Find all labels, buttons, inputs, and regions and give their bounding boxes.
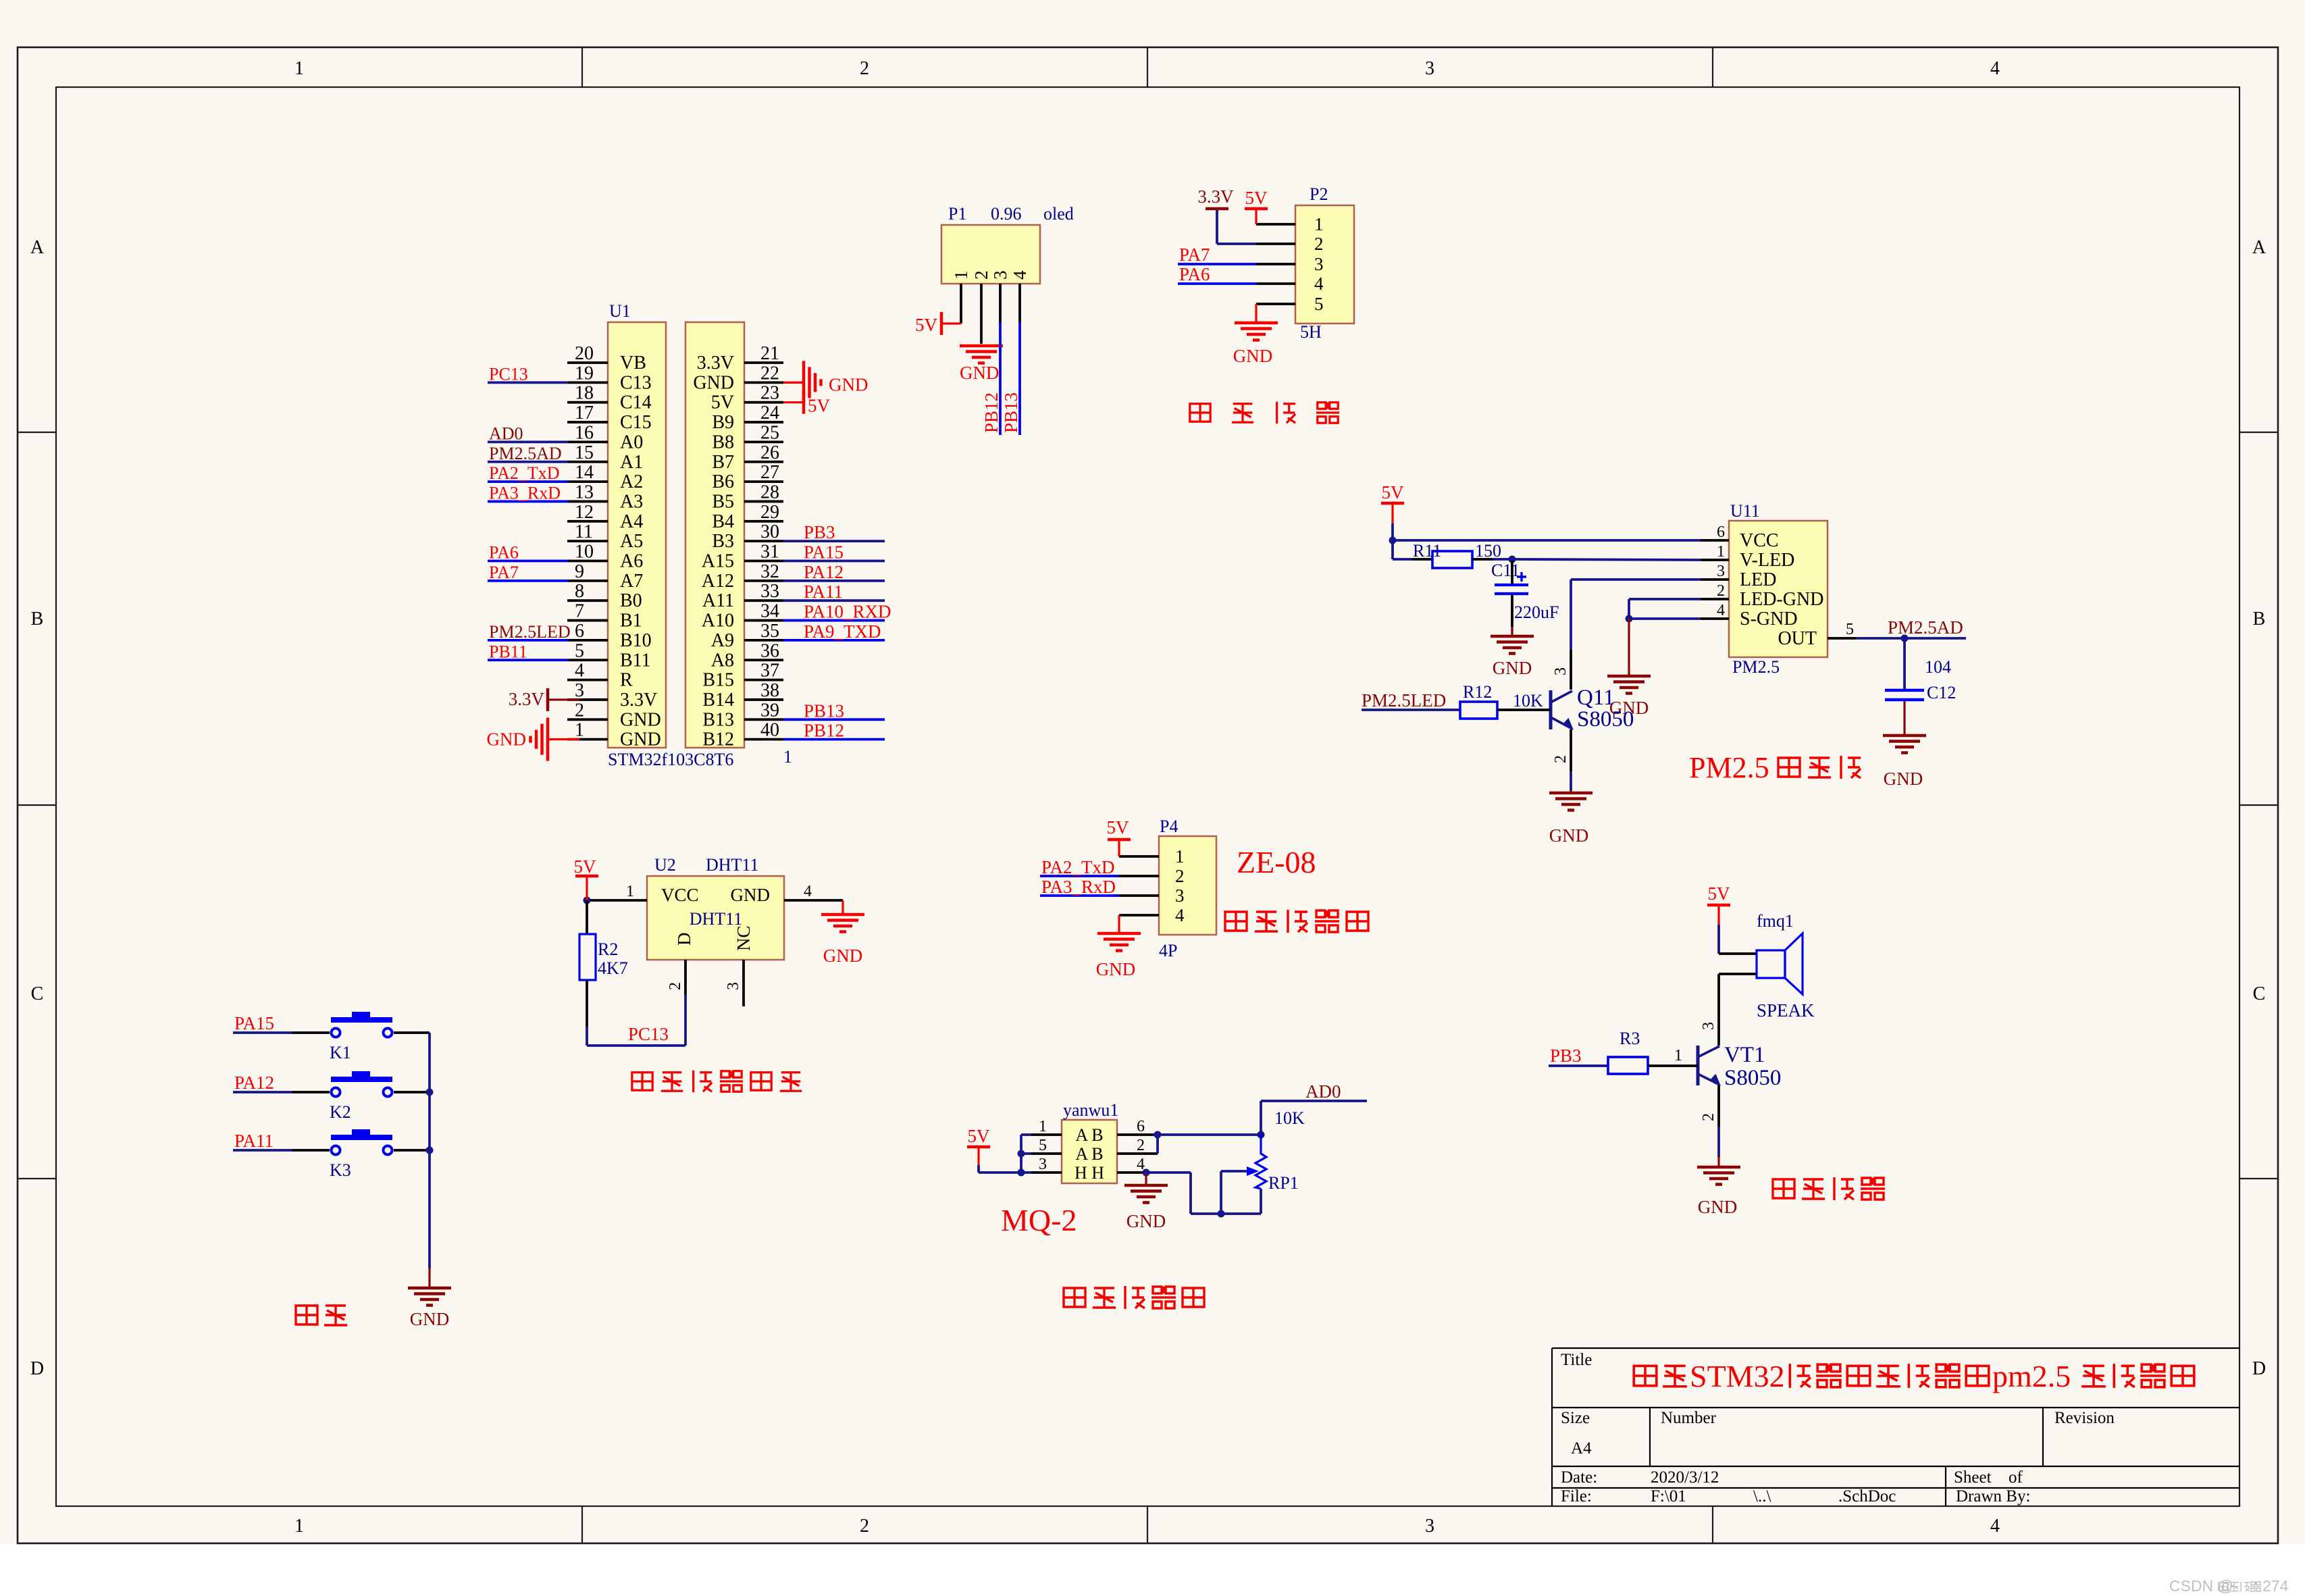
svg-text:5V: 5V [1107,817,1130,838]
svg-text:A B: A B [1075,1125,1103,1145]
svg-text:VCC: VCC [1740,530,1779,551]
svg-text:39: 39 [760,700,779,721]
svg-text:GND: GND [410,1309,450,1329]
svg-text:B0: B0 [620,590,642,611]
svg-text:B5: B5 [712,491,734,512]
svg-text:K1: K1 [330,1043,351,1062]
svg-text:2: 2 [667,982,684,990]
svg-text:PA9_TXD: PA9_TXD [804,621,881,642]
svg-text:3: 3 [1039,1156,1047,1173]
svg-text:A12: A12 [702,571,734,592]
svg-text:R11: R11 [1413,541,1441,561]
svg-text:PA3_RxD: PA3_RxD [489,483,561,503]
svg-text:1: 1 [1717,543,1725,561]
svg-text:Q11: Q11 [1577,686,1615,710]
svg-text:6: 6 [1137,1118,1145,1135]
svg-text:16: 16 [575,422,594,443]
svg-text:B4: B4 [712,511,734,532]
svg-text:34: 34 [760,601,779,622]
svg-text:8: 8 [575,581,584,602]
svg-text:7: 7 [575,601,584,622]
svg-text:\..\: \..\ [1753,1487,1771,1505]
svg-text:38: 38 [760,680,779,701]
svg-text:2: 2 [1137,1137,1145,1154]
svg-text:A2: A2 [620,471,643,492]
svg-text:3: 3 [990,271,1010,280]
svg-text:35: 35 [760,621,779,642]
svg-text:B10: B10 [620,630,652,651]
svg-text:GND: GND [823,946,863,966]
svg-text:yanwu1: yanwu1 [1063,1100,1118,1120]
svg-text:.SchDoc: .SchDoc [1838,1487,1896,1505]
svg-text:of: of [2009,1468,2023,1487]
svg-text:1: 1 [1175,846,1185,867]
svg-text:PA6: PA6 [489,543,519,563]
svg-text:PM2.5: PM2.5 [1732,657,1780,677]
svg-text:3: 3 [1700,1022,1717,1030]
svg-text:6: 6 [575,621,584,642]
svg-text:B15: B15 [702,670,734,691]
svg-text:PB12: PB12 [804,721,844,741]
svg-text:B7: B7 [712,452,734,473]
svg-text:4P: 4P [1159,941,1177,960]
svg-text:PB11: PB11 [489,642,527,661]
svg-text:B13: B13 [702,709,734,730]
svg-text:21: 21 [760,343,779,364]
svg-text:220uF: 220uF [1514,602,1559,622]
svg-text:4: 4 [1990,58,2000,79]
svg-text:22: 22 [760,363,779,384]
svg-text:4: 4 [1175,905,1185,925]
svg-text:F:\01: F:\01 [1651,1487,1686,1505]
svg-text:25: 25 [760,422,779,443]
svg-text:5V: 5V [574,856,597,877]
svg-text:K3: K3 [330,1160,351,1180]
svg-text:P4: P4 [1160,817,1178,836]
svg-text:2: 2 [860,1516,869,1537]
svg-text:5V: 5V [711,392,734,413]
svg-text:B14: B14 [702,690,734,711]
svg-text:GND: GND [620,729,661,750]
svg-text:1: 1 [1314,214,1324,234]
svg-text:D: D [2252,1358,2266,1379]
svg-text:274: 274 [2262,1577,2289,1595]
svg-text:A B: A B [1075,1144,1103,1164]
svg-text:PC13: PC13 [489,364,528,384]
svg-text:2: 2 [1175,866,1185,886]
svg-text:1: 1 [783,747,792,767]
svg-text:S8050: S8050 [1724,1066,1781,1090]
svg-text:PC13: PC13 [628,1024,669,1044]
svg-text:GND: GND [960,363,1000,383]
svg-text:B12: B12 [702,729,734,750]
svg-text:R3: R3 [1620,1029,1640,1048]
svg-text:PA7: PA7 [1179,244,1210,265]
svg-text:5: 5 [1039,1137,1047,1154]
svg-text:A4: A4 [1571,1439,1592,1458]
svg-text:2: 2 [1552,755,1570,763]
svg-text:NC: NC [733,925,754,951]
svg-text:3.3V: 3.3V [620,690,657,711]
svg-text:D: D [674,933,694,946]
svg-text:GND: GND [731,885,771,905]
svg-text:4: 4 [1990,1516,2000,1537]
svg-text:3: 3 [1552,667,1570,675]
svg-text:1: 1 [626,883,634,900]
svg-text:GND: GND [1549,825,1589,846]
svg-text:fmq1: fmq1 [1757,911,1794,931]
svg-text:3: 3 [575,680,584,701]
svg-text:R12: R12 [1463,682,1492,702]
svg-text:RP1: RP1 [1268,1173,1299,1193]
svg-text:R: R [620,670,633,691]
svg-text:PA11: PA11 [234,1131,274,1151]
svg-text:4K7: 4K7 [598,958,628,978]
svg-text:2: 2 [1717,582,1725,600]
svg-text:4: 4 [1314,274,1324,294]
svg-text:12: 12 [575,502,594,523]
svg-text:C11: C11 [1491,561,1520,580]
svg-text:OUT: OUT [1778,628,1817,649]
svg-text:15: 15 [575,442,594,463]
svg-text:5H: 5H [1300,322,1322,342]
svg-text:10K: 10K [1513,691,1543,711]
svg-text:10K: 10K [1274,1108,1305,1128]
svg-text:S-GND: S-GND [1740,609,1798,629]
svg-text:GND: GND [1126,1211,1166,1231]
svg-text:5V: 5V [1382,482,1405,503]
svg-text:Revision: Revision [2054,1409,2115,1427]
svg-text:B1: B1 [620,611,642,632]
svg-text:37: 37 [760,661,779,681]
svg-text:3: 3 [1717,563,1725,580]
svg-text:3.3V: 3.3V [697,353,734,374]
svg-text:3.3V: 3.3V [509,689,545,709]
svg-text:STM32f103C8T6: STM32f103C8T6 [608,750,733,769]
svg-text:C: C [31,983,44,1004]
svg-text:PA15: PA15 [804,542,844,563]
svg-text:LED: LED [1740,569,1776,590]
svg-text:GND: GND [1233,346,1273,366]
svg-text:Drawn By:: Drawn By: [1956,1487,2030,1505]
svg-text:V-LED: V-LED [1740,550,1794,571]
svg-text:GND: GND [693,372,734,393]
svg-text:5V: 5V [915,315,938,335]
svg-text:GND: GND [487,729,527,750]
svg-text:PA3_RxD: PA3_RxD [1041,877,1116,897]
svg-text:PA15: PA15 [234,1013,274,1033]
svg-text:PB3: PB3 [804,522,835,542]
svg-text:Number: Number [1661,1409,1717,1427]
svg-text:2020/3/12: 2020/3/12 [1651,1468,1719,1487]
svg-text:0.96: 0.96 [991,204,1022,224]
svg-text:PM2.5: PM2.5 [1689,751,1769,784]
svg-text:17: 17 [575,403,594,423]
svg-text:B3: B3 [712,531,734,552]
svg-text:4: 4 [804,883,812,900]
svg-text:6: 6 [1717,523,1725,541]
svg-text:PM2.5LED: PM2.5LED [489,622,571,642]
svg-text:PA2_TxD: PA2_TxD [489,463,560,483]
svg-text:oled: oled [1043,204,1074,224]
svg-text:33: 33 [760,581,779,602]
svg-text:GND: GND [829,374,869,394]
svg-text:DHT11: DHT11 [706,855,758,875]
svg-text:PA6: PA6 [1179,264,1210,284]
svg-text:P1: P1 [948,204,966,224]
svg-text:3: 3 [1425,1516,1434,1537]
svg-text:A10: A10 [702,611,734,632]
svg-text:1: 1 [951,271,971,280]
svg-text:A15: A15 [702,551,734,572]
svg-text:A: A [30,237,45,258]
svg-text:2: 2 [971,271,991,280]
svg-text:32: 32 [760,561,779,582]
svg-text:A3: A3 [620,491,643,512]
svg-text:PB13: PB13 [804,700,844,721]
svg-text:A8: A8 [711,650,734,671]
svg-text:pm2.5: pm2.5 [1992,1359,2071,1393]
svg-text:AD0: AD0 [489,423,523,443]
svg-text:Sheet: Sheet [1954,1468,1992,1487]
svg-text:VT1: VT1 [1724,1043,1765,1067]
svg-text:PB3: PB3 [1550,1046,1582,1066]
svg-text:19: 19 [575,363,594,384]
svg-text:B: B [31,609,44,629]
svg-text:40: 40 [760,720,779,741]
svg-text:B: B [2253,609,2266,629]
svg-text:1: 1 [294,1516,304,1537]
svg-text:LED-GND: LED-GND [1740,589,1823,610]
svg-text:PA12: PA12 [804,562,844,582]
svg-text:26: 26 [760,442,779,463]
svg-text:1: 1 [575,720,584,741]
svg-text:U2: U2 [654,855,676,875]
svg-text:28: 28 [760,482,779,503]
svg-text:29: 29 [760,502,779,523]
svg-text:5: 5 [1314,294,1324,314]
svg-text:PA11: PA11 [804,582,843,602]
svg-text:5: 5 [575,640,584,661]
svg-text:PA12: PA12 [234,1073,274,1093]
svg-text:3: 3 [1175,885,1185,906]
svg-text:A11: A11 [702,590,734,611]
svg-text:4: 4 [1717,602,1725,619]
svg-text:B11: B11 [620,650,651,671]
svg-text:D: D [30,1358,44,1379]
svg-text:C14: C14 [620,392,652,413]
svg-text:5: 5 [1846,621,1854,638]
svg-text:B9: B9 [712,412,734,433]
svg-text:STM32: STM32 [1690,1359,1785,1393]
svg-text:5V: 5V [1708,883,1731,904]
svg-text:B6: B6 [712,471,734,492]
svg-text:GND: GND [1698,1197,1738,1217]
svg-text:C13: C13 [620,372,652,393]
svg-text:GND: GND [1096,959,1136,979]
svg-text:1: 1 [1039,1118,1047,1135]
svg-text:10: 10 [575,542,594,563]
svg-text:S8050: S8050 [1577,707,1634,731]
svg-text:A0: A0 [620,432,643,453]
svg-text:C12: C12 [1927,683,1956,702]
svg-text:31: 31 [760,542,779,563]
svg-text:U1: U1 [609,301,631,321]
svg-text:GND: GND [1493,658,1532,678]
svg-text:3.3V: 3.3V [1197,186,1234,207]
svg-text:PM2.5AD: PM2.5AD [489,444,562,463]
svg-text:2: 2 [575,700,584,721]
svg-text:Title: Title [1561,1351,1592,1369]
svg-text:A5: A5 [620,531,643,552]
svg-text:14: 14 [575,462,594,483]
svg-text:1: 1 [294,58,304,79]
svg-text:K2: K2 [330,1102,351,1122]
svg-text:3: 3 [725,982,742,990]
svg-text:9: 9 [575,561,584,582]
svg-text:MQ-2: MQ-2 [1001,1203,1077,1237]
svg-text:P2: P2 [1310,184,1328,204]
svg-text:Date:: Date: [1561,1468,1597,1487]
svg-text:PA7: PA7 [489,563,519,582]
svg-text:PB13: PB13 [1001,392,1021,433]
svg-text:C: C [2253,983,2266,1004]
svg-text:30: 30 [760,521,779,542]
svg-text:2: 2 [1700,1113,1717,1121]
svg-text:18: 18 [575,383,594,404]
svg-text:104: 104 [1925,657,1951,677]
svg-text:A6: A6 [620,551,643,572]
svg-text:ZE-08: ZE-08 [1237,845,1316,879]
svg-text:5V: 5V [1245,188,1268,208]
svg-text:4: 4 [1010,270,1030,280]
svg-text:2: 2 [860,58,869,79]
svg-text:A9: A9 [711,630,734,651]
svg-text:A7: A7 [620,571,643,592]
svg-text:VCC: VCC [661,885,699,905]
svg-text:3: 3 [1314,254,1324,274]
svg-text:20: 20 [575,343,594,364]
svg-text:2: 2 [1314,234,1324,254]
svg-text:GND: GND [620,709,661,730]
svg-text:PM2.5LED: PM2.5LED [1362,690,1446,711]
svg-text:1: 1 [1674,1047,1682,1064]
svg-text:36: 36 [760,640,779,661]
svg-text:GND: GND [1884,769,1923,789]
svg-text:U11: U11 [1730,501,1760,521]
svg-text:PA2_TxD: PA2_TxD [1041,857,1115,877]
svg-text:A1: A1 [620,452,643,473]
svg-text:4: 4 [575,661,584,681]
svg-text:27: 27 [760,462,779,483]
svg-text:R2: R2 [598,939,618,959]
svg-text:Size: Size [1561,1409,1590,1427]
svg-text:150: 150 [1475,541,1501,561]
svg-text:11: 11 [575,521,593,542]
svg-text:3: 3 [1425,58,1434,79]
svg-text:PM2.5AD: PM2.5AD [1888,617,1963,638]
svg-text:5V: 5V [968,1126,991,1146]
svg-text:PB12: PB12 [981,392,1002,433]
svg-text:23: 23 [760,383,779,404]
svg-text:5V: 5V [808,396,831,416]
svg-text:B8: B8 [712,432,734,453]
svg-text:AD0: AD0 [1305,1081,1341,1102]
svg-text:A: A [2252,237,2267,258]
svg-text:File:: File: [1561,1487,1592,1505]
svg-text:C15: C15 [620,412,652,433]
svg-text:SPEAK: SPEAK [1757,1000,1815,1021]
svg-text:13: 13 [575,482,594,503]
svg-text:PA10_RXD: PA10_RXD [804,602,891,622]
svg-text:A4: A4 [620,511,643,532]
svg-text:H H: H H [1074,1163,1104,1183]
svg-text:VB: VB [620,353,646,374]
svg-text:24: 24 [760,403,779,423]
